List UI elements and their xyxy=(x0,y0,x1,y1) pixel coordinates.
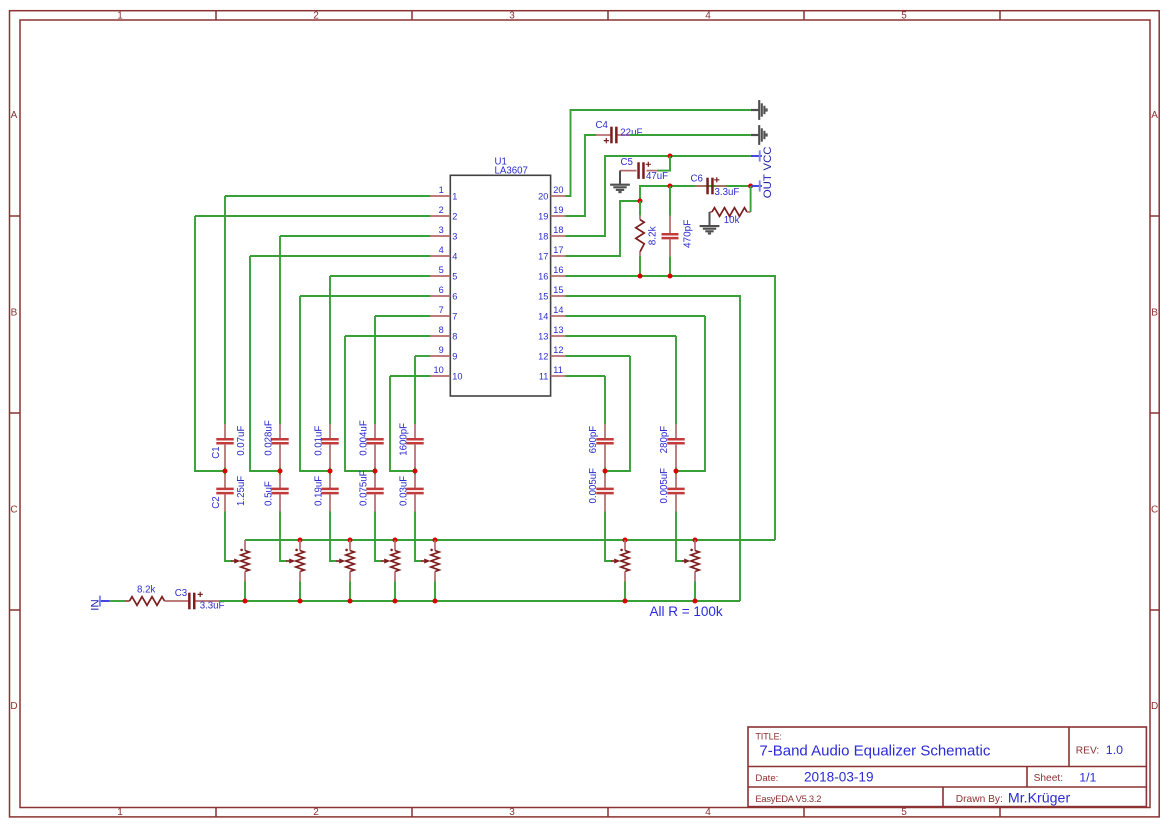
junction cap pair x=330 xyxy=(328,469,333,474)
wiper arrow band3 xyxy=(336,560,339,562)
svg-text:0.005uF: 0.005uF xyxy=(659,468,670,504)
svg-text:16: 16 xyxy=(553,265,563,275)
svg-text:3.3uF: 3.3uF xyxy=(200,601,225,612)
resistor 8.2k (input) xyxy=(125,600,129,602)
svg-text:3: 3 xyxy=(509,807,515,818)
pin 18 of U1 (stub, number, name) xyxy=(551,235,566,237)
svg-text:6: 6 xyxy=(452,291,457,301)
svg-text:8.2k: 8.2k xyxy=(647,225,658,245)
svg-text:1600pF: 1600pF xyxy=(398,423,409,456)
pin 5 of U1 (stub, number, name) xyxy=(430,275,450,277)
svg-text:C3: C3 xyxy=(175,588,187,599)
svg-text:15: 15 xyxy=(553,285,563,295)
pin 15 of U1 (stub, number, name) xyxy=(551,295,566,297)
svg-text:19: 19 xyxy=(553,205,563,215)
wire potentiometer top rail y=540 xyxy=(245,539,775,541)
junction VCC rail at x=670 xyxy=(668,154,673,159)
capacitor 0.004uF (top, column x=375) xyxy=(374,424,376,439)
svg-text:1: 1 xyxy=(452,191,457,201)
svg-text:8: 8 xyxy=(439,325,444,335)
svg-text:6: 6 xyxy=(439,285,444,295)
ground G3 (below C5) xyxy=(619,171,621,185)
junction cap pair x=415 xyxy=(413,469,418,474)
wire pin16 rail right and down xyxy=(566,276,776,540)
svg-text:13: 13 xyxy=(553,325,563,335)
wire C4 to second ground xyxy=(630,134,751,136)
ground G1 (top, rotated right) xyxy=(751,109,759,111)
pin 9 of U1 (stub, number, name) xyxy=(430,355,450,357)
capacitor C5 47uF xyxy=(620,170,637,172)
svg-text:3: 3 xyxy=(452,231,457,241)
svg-text:REV:: REV: xyxy=(1076,745,1099,756)
wire 470pF bottom to pin16 rail xyxy=(669,256,671,276)
wire pot4 wiper feed from cap junction xyxy=(375,512,382,562)
wire pin17 to 8.2k top xyxy=(566,201,641,256)
svg-text:0.07uF: 0.07uF xyxy=(236,426,247,456)
junction pot top x=435 xyxy=(433,538,438,543)
wire pot4 bottom to bus xyxy=(394,582,396,602)
svg-text:17: 17 xyxy=(553,245,563,255)
capacitor 690pF (top, column x=605) xyxy=(604,424,606,439)
wire pot3 bottom to bus xyxy=(349,582,351,602)
svg-text:A: A xyxy=(1151,110,1158,121)
svg-text:20: 20 xyxy=(538,191,548,201)
svg-text:0.19uF: 0.19uF xyxy=(313,476,324,506)
capacitor 0.01uF (top, column x=330) xyxy=(329,424,331,439)
svg-text:VCC: VCC xyxy=(762,146,774,170)
svg-text:3: 3 xyxy=(439,225,444,235)
wire pin3 horizontal xyxy=(280,235,430,237)
wire IN to R input xyxy=(110,600,126,602)
wire pin11 riser to capacitor column xyxy=(604,376,606,424)
svg-text:IN: IN xyxy=(89,599,101,610)
svg-text:1: 1 xyxy=(117,11,123,22)
wire pin10 riser down to junction row xyxy=(390,376,415,471)
wire pot1 bottom to bus xyxy=(244,582,246,602)
svg-text:C4: C4 xyxy=(596,120,609,131)
svg-text:4: 4 xyxy=(705,807,711,818)
junction bus at pot x=245 xyxy=(243,599,248,604)
svg-text:0.01uF: 0.01uF xyxy=(313,426,324,456)
svg-text:C: C xyxy=(10,505,17,516)
wire junction column x=605 xyxy=(604,468,606,475)
junction bus at pot x=435 xyxy=(433,599,438,604)
ground G2 (rotated right) xyxy=(751,134,759,136)
junction pot top x=695 xyxy=(693,538,698,543)
svg-text:7-Band Audio Equalizer Schemat: 7-Band Audio Equalizer Schematic xyxy=(759,742,990,759)
junction cap pair x=676 xyxy=(674,469,679,474)
pin 17 of U1 (stub, number, name) xyxy=(551,255,566,257)
svg-text:5: 5 xyxy=(439,265,444,275)
svg-text:7: 7 xyxy=(452,311,457,321)
svg-text:B: B xyxy=(1151,308,1158,319)
op-amp U1 LA3607 (20-pin IC body) xyxy=(450,175,550,396)
svg-text:3.3uF: 3.3uF xyxy=(715,187,740,198)
svg-text:9: 9 xyxy=(439,345,444,355)
svg-text:C2: C2 xyxy=(211,496,222,508)
wire pin1 horizontal xyxy=(225,195,430,197)
svg-text:10: 10 xyxy=(433,365,443,375)
wire pot3 wiper feed from cap junction xyxy=(330,512,337,562)
junction 8.2k bottom on pin16 rail xyxy=(638,274,643,279)
svg-text:10k: 10k xyxy=(724,215,740,226)
wire pin12 riser to junction row xyxy=(605,356,630,471)
svg-text:0.075uF: 0.075uF xyxy=(358,470,369,506)
svg-text:5: 5 xyxy=(901,11,907,22)
svg-text:18: 18 xyxy=(538,231,548,241)
junction pot top x=625 xyxy=(623,538,628,543)
svg-text:C: C xyxy=(1151,505,1158,516)
wire 470pF top wire xyxy=(669,186,671,216)
svg-text:5: 5 xyxy=(901,807,907,818)
svg-text:0.028uF: 0.028uF xyxy=(263,420,274,456)
svg-text:7: 7 xyxy=(439,305,444,315)
wiper arrow band1 xyxy=(231,560,234,562)
svg-text:C5: C5 xyxy=(621,157,633,168)
svg-text:1: 1 xyxy=(117,807,123,818)
wire pot7 bottom to bus xyxy=(694,582,696,602)
svg-text:B: B xyxy=(11,308,18,319)
pin 13 of U1 (stub, number, name) xyxy=(551,335,566,337)
svg-text:15: 15 xyxy=(538,291,548,301)
wire pin2 horizontal xyxy=(195,215,430,217)
svg-text:1.25uF: 1.25uF xyxy=(236,476,247,506)
potentiometer band7 100k xyxy=(694,540,696,551)
resistor 10k xyxy=(710,211,713,213)
pin 11 of U1 (stub, number, name) xyxy=(551,375,566,377)
wiper arrow band7 xyxy=(682,560,684,562)
potentiometer band6 100k xyxy=(624,540,626,551)
junction cap pair x=375 xyxy=(373,469,378,474)
svg-text:22uF: 22uF xyxy=(620,128,642,139)
svg-text:2: 2 xyxy=(439,205,444,215)
wiper arrow band5 xyxy=(421,560,424,562)
svg-text:1/1: 1/1 xyxy=(1079,771,1096,785)
pin 3 of U1 (stub, number, name) xyxy=(430,235,450,237)
svg-text:20: 20 xyxy=(553,185,563,195)
port OUT xyxy=(751,185,762,187)
pin 19 of U1 (stub, number, name) xyxy=(551,215,566,217)
svg-text:EasyEDA V5.3.2: EasyEDA V5.3.2 xyxy=(755,793,821,804)
svg-text:4: 4 xyxy=(439,245,444,255)
wire junction column x=280 xyxy=(279,468,281,475)
junction pot top x=300 xyxy=(298,538,303,543)
wire pin11 horizontal xyxy=(566,375,606,377)
wire pin14 riser to junction row xyxy=(676,316,705,471)
wire pot1 wiper feed from cap junction xyxy=(225,512,232,562)
pin 2 of U1 (stub, number, name) xyxy=(430,215,450,217)
svg-text:1: 1 xyxy=(439,185,444,195)
svg-text:470pF: 470pF xyxy=(682,220,693,248)
wire pot2 wiper feed from cap junction xyxy=(280,512,287,562)
svg-text:4: 4 xyxy=(452,251,457,261)
svg-text:2018-03-19: 2018-03-19 xyxy=(804,770,874,785)
svg-text:13: 13 xyxy=(538,331,548,341)
svg-text:16: 16 xyxy=(538,271,548,281)
svg-text:8.2k: 8.2k xyxy=(137,584,155,595)
svg-text:2: 2 xyxy=(313,807,319,818)
capacitor 280pF (top, column x=676) xyxy=(675,424,677,439)
svg-text:0.03uF: 0.03uF xyxy=(398,476,409,506)
svg-text:10: 10 xyxy=(452,371,462,381)
wire pot6 wiper feed from cap junction xyxy=(605,512,612,562)
potentiometer band2 100k xyxy=(299,540,301,551)
wire pin9 horizontal xyxy=(415,355,430,357)
svg-text:TITLE:: TITLE: xyxy=(755,732,781,742)
wire pin15 down to signal bus xyxy=(566,296,741,601)
wire 8.2k bottom to pin16 rail xyxy=(639,256,641,276)
wire OUT rail from 8.2k top xyxy=(640,186,751,201)
svg-text:Drawn By:: Drawn By: xyxy=(956,794,1003,805)
title block xyxy=(748,727,1146,807)
pin 12 of U1 (stub, number, name) xyxy=(551,355,566,357)
junction OUT rail at x=670 xyxy=(668,184,673,189)
svg-text:3: 3 xyxy=(509,11,515,22)
wire pot5 bottom to bus xyxy=(434,582,436,602)
port VCC xyxy=(751,155,762,157)
pin 7 of U1 (stub, number, name) xyxy=(430,315,450,317)
wiper arrow band4 xyxy=(381,560,384,562)
wire junction column x=676 xyxy=(675,468,677,475)
svg-text:D: D xyxy=(1151,701,1158,712)
svg-text:0.5uF: 0.5uF xyxy=(263,481,274,506)
wire junction column x=375 xyxy=(374,468,376,475)
capacitor 1600pF (top, column x=415) xyxy=(414,424,416,439)
pin 10 of U1 (stub, number, name) xyxy=(430,375,450,377)
svg-text:All R = 100k: All R = 100k xyxy=(650,604,723,619)
wire pin6 horizontal xyxy=(300,295,430,297)
wire pin2 riser down to junction row xyxy=(195,216,225,471)
wire pin7 horizontal xyxy=(375,315,430,317)
wire pin13 horizontal xyxy=(566,335,677,337)
wire pin1 riser down to capacitor column x=225 xyxy=(224,196,226,424)
svg-text:47uF: 47uF xyxy=(646,171,668,182)
pin 14 of U1 (stub, number, name) xyxy=(551,315,566,317)
svg-text:Date:: Date: xyxy=(755,773,778,784)
wire pin18 up to VCC rail xyxy=(566,156,751,236)
svg-text:Sheet:: Sheet: xyxy=(1034,773,1063,784)
wire 10k to OUT rail xyxy=(750,186,752,212)
wire pin4 riser down to junction row xyxy=(250,256,280,471)
pin 16 of U1 (stub, number, name) xyxy=(551,275,566,277)
junction bus at pot x=625 xyxy=(623,599,628,604)
junction bus at pot x=350 xyxy=(348,599,353,604)
pin 6 of U1 (stub, number, name) xyxy=(430,295,450,297)
wire C5 to VCC rail xyxy=(658,156,671,171)
wire pot7 wiper feed from cap junction xyxy=(676,512,683,562)
svg-text:Mr.Krüger: Mr.Krüger xyxy=(1008,791,1071,807)
potentiometer band1 100k xyxy=(244,540,246,551)
capacitor C4 22uF xyxy=(596,134,611,136)
svg-text:18: 18 xyxy=(553,225,563,235)
svg-text:C1: C1 xyxy=(211,446,222,458)
svg-text:4: 4 xyxy=(705,11,711,22)
potentiometer band5 100k xyxy=(434,540,436,551)
svg-text:5: 5 xyxy=(452,271,457,281)
wire pin5 horizontal xyxy=(330,275,430,277)
pin 1 of U1 (stub, number, name) xyxy=(430,195,450,197)
wire pin14 horizontal xyxy=(566,315,706,317)
capacitor 0.028uF (top, column x=280) xyxy=(279,424,281,439)
svg-text:OUT: OUT xyxy=(762,174,774,198)
wire pin5 riser down to capacitor column x=330 xyxy=(329,276,331,424)
capacitor C3 3.3uF xyxy=(188,593,191,610)
svg-text:D: D xyxy=(10,701,17,712)
wire pin7 riser down to capacitor column x=375 xyxy=(374,316,376,424)
junction cap pair x=605 xyxy=(603,469,608,474)
wire pin8 riser down to junction row xyxy=(345,336,375,471)
svg-text:C6: C6 xyxy=(691,174,703,185)
svg-text:LA3607: LA3607 xyxy=(495,166,528,177)
wire pin8 horizontal xyxy=(345,335,430,337)
wire pin19 to C4 xyxy=(566,135,597,216)
wire 8.2k top wire xyxy=(639,201,641,216)
wire junction column x=415 xyxy=(414,468,416,475)
svg-text:11: 11 xyxy=(553,365,563,375)
svg-text:11: 11 xyxy=(539,371,549,381)
wire pin4 horizontal xyxy=(250,255,430,257)
svg-text:12: 12 xyxy=(553,345,563,355)
svg-text:17: 17 xyxy=(538,251,548,261)
svg-text:14: 14 xyxy=(538,311,548,321)
svg-text:12: 12 xyxy=(538,351,548,361)
wire pot5 wiper feed from cap junction xyxy=(415,512,422,562)
svg-text:A: A xyxy=(11,110,18,121)
junction 8.2k top xyxy=(638,199,643,204)
capacitor 0.07uF (top, column x=225) xyxy=(224,424,226,439)
wire pin20 up to top ground xyxy=(566,110,751,196)
svg-text:1.0: 1.0 xyxy=(1106,743,1123,757)
wiper arrow band6 xyxy=(611,560,614,562)
junction pot top x=395 xyxy=(393,538,398,543)
junction pot top x=350 xyxy=(348,538,353,543)
svg-text:2: 2 xyxy=(313,11,319,22)
junction OUT rail at 10k riser xyxy=(748,184,753,189)
wiper arrow band2 xyxy=(286,560,289,562)
svg-text:8: 8 xyxy=(452,331,457,341)
pin 4 of U1 (stub, number, name) xyxy=(430,255,450,257)
port IN xyxy=(100,600,110,602)
pin 8 of U1 (stub, number, name) xyxy=(430,335,450,337)
wire pin12 horizontal xyxy=(566,355,631,357)
junction bus at pot x=695 xyxy=(693,599,698,604)
svg-text:690pF: 690pF xyxy=(588,426,599,454)
wire pin10 horizontal xyxy=(390,375,430,377)
ground G4 (below 10k) xyxy=(709,212,711,226)
junction bus at pot x=395 xyxy=(393,599,398,604)
junction cap pair x=280 xyxy=(278,469,283,474)
svg-text:0.004uF: 0.004uF xyxy=(358,420,369,456)
wire pot2 bottom to bus xyxy=(299,582,301,602)
wire junction column x=225 xyxy=(224,468,226,475)
svg-text:0.005uF: 0.005uF xyxy=(588,468,599,504)
junction 470pF bottom on pin16 rail xyxy=(668,274,673,279)
svg-text:2: 2 xyxy=(452,211,457,221)
potentiometer band3 100k xyxy=(349,540,351,551)
svg-text:9: 9 xyxy=(452,351,457,361)
wire pin13 riser to capacitor column xyxy=(675,336,677,424)
capacitor C6 3.3uF xyxy=(695,185,706,187)
svg-text:280pF: 280pF xyxy=(659,426,670,454)
junction bus at pot x=300 xyxy=(298,599,303,604)
pin 20 of U1 (stub, number, name) xyxy=(551,195,566,197)
svg-text:19: 19 xyxy=(538,211,548,221)
wire signal bus y=601 xyxy=(220,600,740,602)
potentiometer band4 100k xyxy=(394,540,396,551)
wire junction column x=330 xyxy=(329,468,331,475)
wire pin6 riser down to junction row xyxy=(300,296,330,471)
wire pot6 bottom to bus xyxy=(624,582,626,602)
wire pin9 riser down to capacitor column x=415 xyxy=(414,356,416,424)
svg-text:14: 14 xyxy=(553,305,563,315)
wire pin3 riser down to capacitor column x=280 xyxy=(279,236,281,424)
junction cap pair x=225 xyxy=(223,469,228,474)
